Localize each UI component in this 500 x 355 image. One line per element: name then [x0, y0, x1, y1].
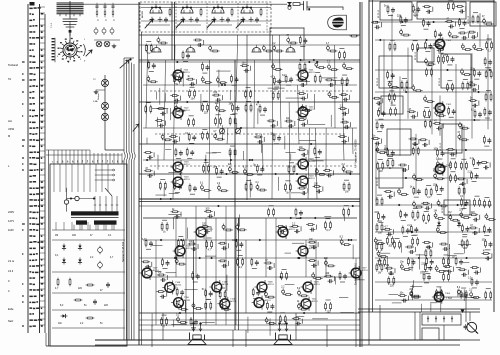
- wire: [189, 115, 194, 117]
- junction: [179, 312, 181, 314]
- wire: [352, 244, 354, 259]
- wire: [455, 149, 457, 154]
- wire: [448, 248, 450, 258]
- terminal label: [29, 260, 31, 262]
- pilot lamp La1: [96, 41, 102, 47]
- junction: [317, 61, 319, 63]
- bus wire: [375, 91, 492, 93]
- resistor: [169, 8, 171, 16]
- wire: [479, 215, 481, 220]
- capacitor: [391, 151, 394, 156]
- junction: [313, 59, 315, 61]
- terminal label: [29, 307, 32, 309]
- transistor T211: [299, 297, 311, 310]
- resistor: [472, 15, 474, 23]
- resistor: [182, 239, 184, 247]
- resistor: [338, 136, 346, 138]
- svg-text:NF-Verstärker 70.45-630: NF-Verstärker 70.45-630: [354, 139, 358, 168]
- bus wire: [375, 39, 492, 41]
- bus wire: [375, 21, 492, 23]
- wire: [162, 219, 167, 221]
- wire: [95, 164, 97, 192]
- resistor: [256, 164, 258, 172]
- resistor: [423, 6, 431, 8]
- wire: [449, 116, 454, 118]
- wire: [450, 171, 455, 173]
- transistor T110: [171, 296, 183, 309]
- svg-text:100: 100: [433, 149, 438, 151]
- resistor: [412, 237, 414, 245]
- wire: [230, 145, 235, 147]
- capacitor C90: [464, 324, 467, 329]
- harness wire: [93, 153, 95, 164]
- resistor: [480, 162, 488, 164]
- wire: [275, 218, 277, 325]
- capacitor: [186, 53, 189, 58]
- wire: [348, 109, 350, 114]
- wire: [52, 292, 125, 294]
- junction: [246, 7, 248, 9]
- capacitor: [426, 10, 431, 13]
- harness wire: [53, 150, 55, 164]
- svg-text:220: 220: [324, 258, 329, 260]
- switch bus dashed: [155, 133, 345, 135]
- junction: [240, 127, 242, 129]
- resistor: [461, 198, 463, 206]
- svg-text:Erde: Erde: [8, 307, 14, 311]
- wire: [123, 160, 125, 340]
- resistor: [484, 57, 486, 65]
- resistor: [372, 138, 380, 140]
- svg-text:1M: 1M: [434, 211, 437, 213]
- wire: [71, 164, 73, 192]
- wire: [394, 268, 396, 273]
- bus wire: [375, 177, 492, 179]
- terminal mark: [22, 253, 23, 254]
- capacitor: [409, 250, 414, 253]
- wire: [246, 100, 251, 102]
- wire: [294, 121, 296, 126]
- wire: [296, 316, 304, 318]
- capacitor: [175, 105, 178, 111]
- svg-text:5n: 5n: [114, 19, 116, 21]
- resistor: [425, 249, 427, 257]
- terminal label: [29, 289, 32, 291]
- wire: [40, 276, 46, 278]
- resistor: [206, 240, 208, 248]
- wire: [152, 107, 169, 109]
- capacitor: [436, 161, 439, 167]
- terminal label: [29, 194, 32, 196]
- wire: [207, 237, 212, 239]
- capacitor: [410, 291, 413, 297]
- wire: [156, 117, 158, 127]
- capacitor: [402, 168, 407, 171]
- bus wire: [375, 204, 492, 206]
- wire: [300, 226, 302, 231]
- wire: [40, 264, 46, 266]
- wire: [383, 39, 385, 115]
- junction: [259, 239, 261, 241]
- switch wiper arrow: [176, 19, 184, 28]
- svg-text:1M: 1M: [228, 103, 231, 105]
- electrolytic C8: [110, 27, 114, 34]
- loudspeaker LS1: [188, 323, 206, 345]
- junction: [296, 173, 298, 175]
- capacitor: [273, 45, 276, 51]
- resistor: [329, 50, 337, 52]
- svg-text:AC151: AC151: [184, 71, 191, 74]
- resistor: [434, 44, 442, 46]
- resistor: [201, 132, 203, 140]
- terminal mark: [22, 61, 25, 62]
- svg-text:127V: 127V: [8, 219, 14, 223]
- resistor: [284, 294, 292, 296]
- svg-text:1M: 1M: [378, 272, 381, 274]
- terminal label: [29, 181, 32, 183]
- resistor: [417, 147, 419, 155]
- wire: [312, 318, 328, 320]
- resistor: [323, 169, 331, 171]
- junction: [405, 91, 407, 93]
- tuner cap: [195, 17, 198, 22]
- terminal mark: [22, 169, 24, 170]
- capacitor: [328, 91, 331, 97]
- resistor: [455, 161, 457, 169]
- terminal number: [41, 169, 43, 171]
- capacitor: [423, 143, 428, 146]
- capacitor: [178, 184, 181, 189]
- capacitor: [343, 98, 348, 101]
- wire: [355, 279, 365, 281]
- svg-text:T208: T208: [268, 282, 274, 284]
- wire: [339, 48, 344, 50]
- right panel top border: [369, 0, 494, 2]
- capacitor: [391, 73, 394, 78]
- afc box lower: [422, 328, 439, 340]
- wire: [187, 157, 192, 159]
- resistor: [377, 212, 379, 220]
- wire: [426, 246, 431, 248]
- junction: [257, 101, 259, 103]
- wire: [190, 86, 195, 88]
- resistor: [192, 271, 194, 279]
- module box M9: [381, 96, 403, 114]
- stage divider dashed: [175, 3, 177, 31]
- resistor: [459, 18, 461, 26]
- wire: [189, 142, 194, 144]
- wire: [40, 162, 46, 164]
- capacitor: [388, 272, 393, 275]
- wire loop: [132, 152, 133, 160]
- capacitor: [152, 63, 155, 68]
- wire: [257, 108, 259, 124]
- wire: [439, 287, 441, 301]
- capacitor: [215, 105, 218, 111]
- wire: [111, 222, 113, 230]
- capacitor: [161, 278, 166, 281]
- wire: [344, 205, 349, 207]
- wire: [315, 225, 317, 230]
- wire: [305, 240, 307, 277]
- wire: [40, 228, 46, 230]
- harness wire: [85, 150, 87, 164]
- wire: [40, 72, 46, 74]
- resistor: [164, 182, 166, 190]
- bus wire: [375, 231, 492, 233]
- capacitor: [382, 214, 385, 219]
- harness wire: [121, 153, 123, 164]
- resistor: [383, 228, 391, 230]
- junction: [180, 173, 182, 175]
- wire: [285, 252, 291, 254]
- resistor: [204, 210, 212, 212]
- wire: [195, 206, 197, 277]
- capacitor: [240, 242, 243, 247]
- wire: [444, 270, 449, 272]
- terminal label: [29, 265, 31, 267]
- svg-text:TA: TA: [8, 77, 11, 81]
- wire: [307, 150, 309, 155]
- svg-text:Tonband: Tonband: [8, 63, 19, 67]
- wire: [438, 52, 443, 54]
- wire: [217, 176, 222, 178]
- wire: [239, 214, 241, 226]
- wire: [55, 222, 57, 230]
- wire: [238, 254, 243, 256]
- wire: [164, 60, 165, 160]
- resistor: [303, 110, 311, 112]
- wire: [428, 140, 430, 145]
- svg-text:1M: 1M: [345, 192, 348, 194]
- capacitor: [452, 109, 455, 114]
- capacitor: [375, 142, 380, 145]
- terminal label: [29, 217, 31, 219]
- wire: [40, 36, 46, 38]
- terminal label: [29, 277, 31, 279]
- capacitor: [472, 104, 477, 107]
- wire: [149, 70, 154, 72]
- tuner cap: [255, 17, 258, 22]
- capacitor: [475, 280, 478, 285]
- terminal mark: [22, 157, 24, 158]
- wire: [475, 119, 480, 121]
- resistor: [314, 277, 322, 279]
- resistor: [339, 108, 347, 110]
- resistor: [485, 239, 487, 247]
- mains transformer primary bar: [71, 211, 119, 215]
- wire: [235, 218, 237, 325]
- module box M2: [417, 2, 466, 19]
- wire: [407, 47, 409, 118]
- transistor T208: [255, 280, 267, 293]
- wire: [94, 39, 120, 41]
- resistor: [298, 187, 306, 189]
- wire: [249, 179, 251, 197]
- wire: [447, 80, 452, 82]
- wire: [463, 241, 465, 253]
- terminal number: [41, 235, 43, 237]
- electrolytic C7: [102, 27, 106, 34]
- switch contacts: [427, 316, 453, 322]
- wire: [285, 152, 295, 154]
- wire: [461, 287, 466, 289]
- capacitor: [463, 21, 466, 26]
- capacitor: [411, 115, 416, 118]
- resistor: [150, 44, 152, 52]
- resistor: [202, 103, 204, 111]
- capacitor: [282, 289, 285, 295]
- terminal label: [29, 121, 31, 123]
- resistor: [439, 205, 447, 207]
- wire: [415, 247, 417, 252]
- wire: [151, 314, 153, 327]
- harness wire: [117, 153, 119, 164]
- capacitor: [437, 127, 442, 130]
- wire: [489, 163, 491, 168]
- svg-text:T201: T201: [309, 70, 315, 72]
- resistor: [468, 31, 476, 33]
- svg-text:ZF 30-15: ZF 30-15: [440, 142, 442, 151]
- wire: [280, 312, 285, 314]
- wire: [486, 288, 491, 290]
- wire: [126, 160, 128, 340]
- wire: [325, 218, 330, 220]
- resistor: [148, 61, 150, 69]
- capacitor: [271, 304, 274, 309]
- junction: [170, 198, 172, 200]
- wire: [180, 212, 182, 217]
- capacitor: [191, 150, 194, 155]
- resistor: [381, 242, 383, 250]
- wire: [267, 311, 272, 313]
- wire: [447, 149, 449, 266]
- wire: [447, 255, 456, 257]
- capacitor C52: [106, 282, 109, 287]
- wire: [176, 158, 181, 160]
- terminal label: [29, 61, 31, 63]
- resistor: [212, 94, 220, 96]
- junction: [155, 7, 157, 9]
- svg-text:T204: T204: [309, 176, 315, 178]
- svg-text:AM/FM: AM/FM: [141, 11, 144, 18]
- svg-text:T 503: T 503: [446, 298, 453, 300]
- resistor: [142, 261, 150, 263]
- terminal label: [29, 13, 31, 15]
- wire: [324, 215, 331, 217]
- resistor: [159, 42, 167, 44]
- svg-text:1M: 1M: [301, 72, 304, 74]
- wire: [461, 262, 470, 264]
- resistor: [265, 50, 273, 52]
- resistor: [413, 187, 415, 195]
- capacitor: [220, 169, 223, 174]
- wire: [146, 138, 148, 144]
- capacitor: [315, 168, 318, 174]
- capacitor: [216, 77, 219, 83]
- wire: [463, 289, 465, 301]
- wire: [410, 286, 422, 288]
- resistor: [485, 23, 493, 25]
- resistor: [234, 117, 236, 125]
- wire: [160, 178, 165, 180]
- resistor: [485, 93, 487, 101]
- wire: [315, 240, 317, 313]
- resistor: [376, 263, 378, 271]
- capacitor: [459, 259, 462, 264]
- resistor: [473, 69, 475, 77]
- dial lamp La3: [101, 79, 108, 86]
- wire: [246, 179, 251, 181]
- terminal number: [41, 241, 43, 243]
- capacitor: [324, 260, 327, 266]
- transistor T121: [186, 45, 195, 52]
- junction: [348, 239, 350, 241]
- transformer core line: [71, 217, 119, 219]
- wire: [389, 273, 394, 275]
- resistor: [219, 290, 221, 298]
- wire: [412, 285, 414, 301]
- wire: [307, 94, 309, 99]
- wire: [314, 94, 316, 109]
- resistor: [300, 295, 308, 297]
- capacitor: [450, 153, 455, 156]
- harness wire: [73, 150, 75, 164]
- resistor: [482, 252, 490, 254]
- resistor: [400, 210, 402, 218]
- resistor: [145, 239, 147, 247]
- wire: [472, 287, 477, 289]
- capacitor: [222, 247, 227, 250]
- harness wire: [89, 150, 91, 164]
- wire: [461, 158, 466, 160]
- capacitor: [425, 207, 430, 210]
- resistor: [430, 249, 432, 257]
- bus wire: [375, 299, 492, 301]
- resistor: [377, 243, 385, 245]
- resistor: [201, 226, 209, 228]
- terminal label: [29, 163, 32, 165]
- wire: [261, 134, 263, 153]
- wire: [226, 275, 228, 291]
- resistor: [425, 188, 427, 196]
- transistor T206: [296, 244, 308, 257]
- dial lamp La4: [101, 102, 108, 109]
- wire: [232, 113, 237, 115]
- capacitor: [388, 195, 393, 198]
- wire: [307, 120, 309, 125]
- terminal label: [29, 37, 31, 39]
- capacitor: [473, 218, 478, 221]
- svg-text:T102: T102: [184, 108, 190, 110]
- wire: [40, 24, 46, 26]
- terminal label: [29, 205, 32, 207]
- terminal number: [41, 187, 43, 189]
- wire: [227, 243, 229, 248]
- transistor T304: [432, 291, 443, 304]
- svg-text:Netzteil 70.45-611: Netzteil 70.45-611: [122, 241, 125, 262]
- wire: [40, 240, 46, 242]
- junction: [226, 173, 228, 175]
- wire: [480, 268, 482, 273]
- capacitor: [382, 111, 385, 116]
- wire: [40, 246, 46, 248]
- wire: [278, 177, 280, 191]
- resistor: [252, 288, 254, 296]
- wire: [444, 296, 466, 298]
- resistor: [150, 105, 152, 113]
- terminal label: [29, 115, 31, 117]
